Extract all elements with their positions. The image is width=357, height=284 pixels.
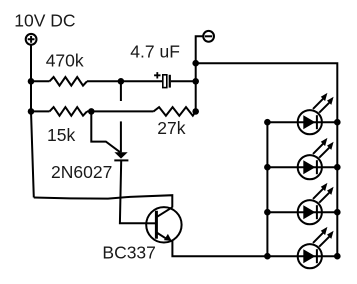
wire PUT anode upper <box>120 81 122 101</box>
wire left rail <box>31 45 34 198</box>
resistor 15k <box>50 107 88 116</box>
node anode junction <box>118 78 125 85</box>
terminal + (10V DC) <box>26 34 37 45</box>
wire PUT anode lower <box>120 121 122 152</box>
svg-text:4.7 uF: 4.7 uF <box>130 42 180 62</box>
wire line2 mid <box>87 110 154 112</box>
node gate junction <box>88 108 95 115</box>
wire LED row 3 <box>267 211 337 213</box>
capacitor 4.7uF <box>154 72 170 88</box>
LED D1 <box>298 93 334 134</box>
node right rail row2 <box>334 164 341 171</box>
svg-text:15k: 15k <box>47 125 75 145</box>
node line2/left rail <box>28 108 35 115</box>
wire LED row 2 <box>267 166 337 168</box>
wire collector run <box>34 195 173 207</box>
wire top run to LEDs <box>196 63 338 256</box>
wire line1 mid <box>87 80 163 82</box>
node LED rail row4 <box>264 253 271 260</box>
LED D2 <box>298 138 334 179</box>
svg-text:2N6027: 2N6027 <box>51 162 112 182</box>
node LED rail row3 <box>264 209 271 216</box>
node cap/center rail <box>192 78 199 85</box>
wire center rail <box>196 36 204 111</box>
node 27k/center rail <box>192 108 199 115</box>
wire LED row 1 <box>267 121 337 123</box>
terminal - (negative) <box>203 31 214 42</box>
PUT 2N6027 <box>114 152 128 160</box>
wire LED row 4 <box>267 255 337 257</box>
svg-text:BC337: BC337 <box>102 242 156 262</box>
wire line2 left <box>31 110 50 112</box>
wire LED bank left rail <box>266 122 268 256</box>
svg-text:27k: 27k <box>157 118 185 138</box>
node right rail row4 <box>334 253 341 260</box>
node LED rail row2 <box>264 164 271 171</box>
node right rail row1 <box>334 119 341 126</box>
wire emitter to bottom <box>172 241 267 256</box>
svg-text:470k: 470k <box>46 50 84 70</box>
LED D4 <box>298 227 334 268</box>
node right rail row3 <box>334 209 341 216</box>
transistor BC337 <box>146 207 181 242</box>
svg-text:10V DC: 10V DC <box>14 11 75 31</box>
resistor 470k <box>50 77 88 86</box>
node top wire/center rail <box>192 60 199 67</box>
node line1/left rail <box>28 78 35 85</box>
wire line1 right <box>171 80 196 82</box>
LED D3 <box>298 183 334 224</box>
wire PUT cathode to base <box>120 160 146 223</box>
resistor 27k <box>154 107 196 116</box>
node LED rail row1 <box>264 119 271 126</box>
wire PUT gate <box>91 111 120 152</box>
wire line1 left <box>31 80 50 82</box>
